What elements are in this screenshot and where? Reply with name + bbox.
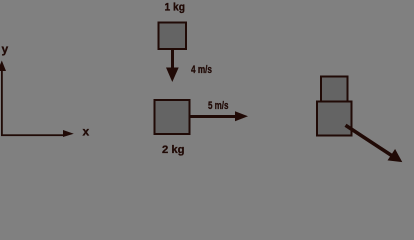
velocity arrow 5 m/s shaft	[190, 115, 235, 118]
stacked top box fill	[322, 78, 347, 101]
box 2 kg border	[154, 99, 191, 135]
stacked bottom box border	[316, 101, 353, 137]
svg-text:5 m/s: 5 m/s	[208, 100, 229, 112]
svg-text:4 m/s: 4 m/s	[191, 64, 212, 76]
x-axis arrowhead	[63, 130, 74, 137]
velocity arrow 4 m/s shaft	[171, 50, 174, 69]
svg-text:y: y	[2, 42, 9, 56]
stacked top box border	[320, 76, 349, 103]
box 2 kg fill	[156, 101, 189, 133]
box 1 kg fill	[160, 24, 186, 49]
svg-text:2 kg: 2 kg	[162, 144, 185, 156]
svg-text:1 kg: 1 kg	[165, 1, 186, 13]
y-axis line	[1, 69, 3, 136]
box 1 kg border	[158, 22, 188, 51]
svg-text:x: x	[83, 125, 90, 139]
combined velocity arrow head	[388, 149, 403, 162]
stacked bottom box fill	[318, 103, 351, 135]
x-axis line	[1, 134, 64, 136]
velocity arrow 5 m/s head	[235, 111, 248, 121]
velocity arrow 4 m/s head	[166, 68, 179, 83]
combined velocity arrow shaft	[346, 125, 393, 156]
y-axis arrowhead	[0, 61, 6, 72]
